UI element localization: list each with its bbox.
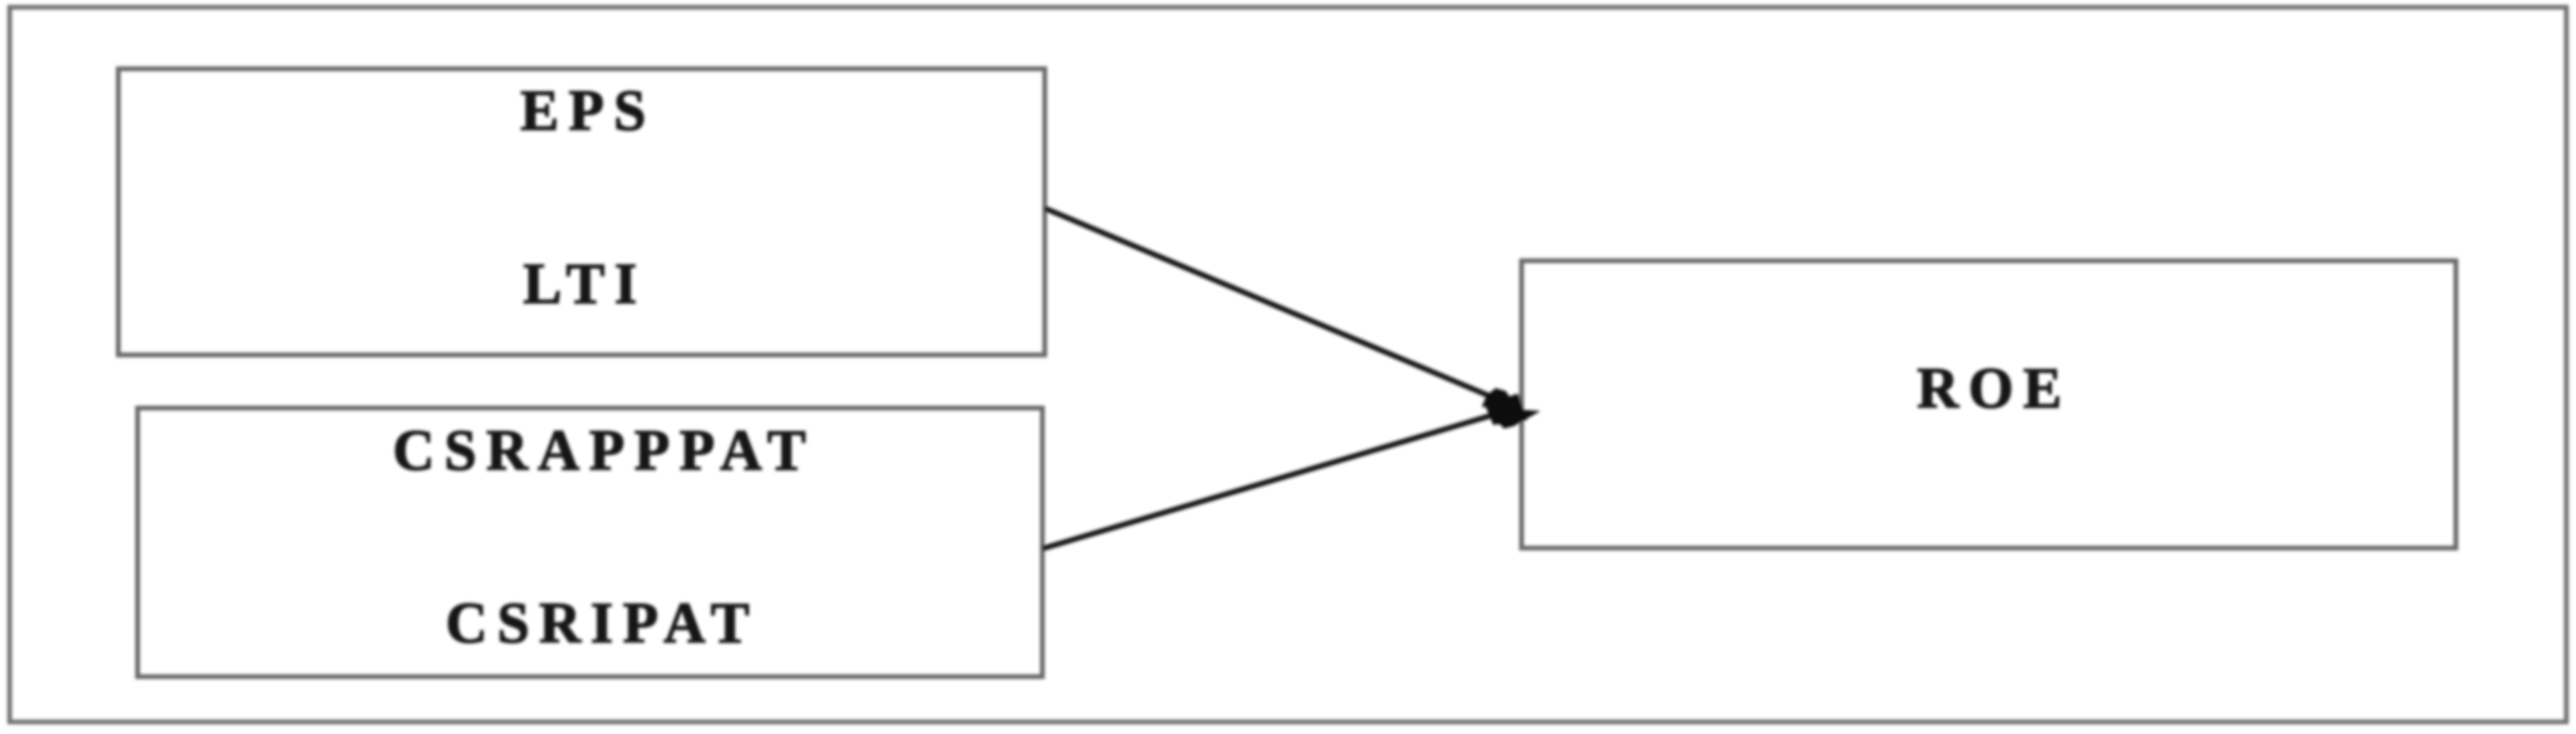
arrowhead center fill — [1485, 394, 1527, 425]
arrowhead upper lobe — [1482, 388, 1517, 409]
box CSRAPPPAT/CSRIPAT — [138, 408, 1042, 677]
svg-text:CSRAPPPAT: CSRAPPPAT — [393, 418, 815, 482]
svg-text:ROE: ROE — [1917, 356, 2071, 420]
svg-text:CSRIPAT: CSRIPAT — [445, 590, 759, 655]
arrow line from EPS box — [1045, 208, 1498, 400]
box EPS/LTI — [118, 69, 1045, 355]
svg-text:LTI: LTI — [523, 251, 647, 316]
arrow line from CSR box — [1042, 412, 1504, 549]
svg-text:EPS: EPS — [520, 78, 655, 142]
box ROE — [1522, 261, 2456, 548]
arrowhead lower lobe — [1498, 408, 1540, 429]
